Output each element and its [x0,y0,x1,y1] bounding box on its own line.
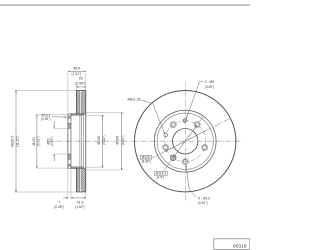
dimension D282.5 [14,89,76,91]
main centerline (horizontal axis) [47,140,241,142]
svg-text:Ø150: Ø150 [32,137,36,145]
svg-text:Ø164: Ø164 [116,136,120,144]
thread hole M8 at 162deg [164,133,168,137]
svg-text:(0.65"): (0.65") [41,117,50,121]
svg-text:(0.28"): (0.28") [54,205,64,209]
bolt hole 54deg [194,122,200,128]
svg-text:Ø145: Ø145 [97,136,101,144]
vertical centerline [184,82,186,201]
boxed label D114.3 [154,171,167,179]
svg-text:(2.82"): (2.82") [50,137,54,146]
label 2-D9 with leader [186,80,214,118]
dimension D150 [37,113,68,115]
friction ring hatch right plate bottom [82,168,86,192]
sheet top border line [0,4,250,6]
hat wall bottom inner edge [71,166,84,168]
dimension D164 [86,112,125,114]
outer diameter circle [135,91,236,192]
svg-text:(6.45"): (6.45") [121,136,125,145]
hat wall hatch bottom [71,167,84,169]
diagonal dimension line D114.3 [163,117,203,172]
friction ring hatch left plate top [76,91,80,115]
dimension D71 bore [54,127,68,129]
label 5-D13 with leader [186,165,210,205]
left plate outer face bottom [75,168,77,192]
hat wall bottom edge [68,167,86,169]
screw hole D9 top [183,119,187,123]
bolt hole 270deg [182,159,188,165]
left plate outer face top [75,90,77,114]
svg-text:2 - Ø9: 2 - Ø9 [205,80,215,84]
bolt circle [165,121,206,162]
svg-text:(1.91"): (1.91") [72,72,82,76]
centre bore edges [68,127,71,129]
centre bore [173,129,198,154]
dimension 25 [75,84,77,90]
diagonal dimension line D126 [151,119,230,159]
svg-text:(11.12"): (11.12") [15,136,19,147]
svg-text:(4.5"): (4.5") [157,176,165,180]
vent slot left edge [79,92,81,190]
thread hole M8 at 234deg (hatched) [170,155,176,161]
flange inner face [70,114,72,168]
flange mounting face [67,114,69,168]
flange hatch bottom [68,154,71,159]
hat wall top edge [68,113,86,115]
svg-text:25: 25 [79,76,83,80]
boxed label D126 [140,155,151,163]
hub outer ring [154,110,216,172]
svg-text:M8x1.25: M8x1.25 [127,97,140,101]
flange hatch top [68,115,71,118]
hat wall top inner edge [71,114,84,116]
bolt hole 342deg [202,144,208,150]
hub inner ring [157,113,213,169]
svg-text:48.5: 48.5 [73,67,80,71]
inner silhouette line right [83,114,85,168]
bolt hole 126deg [170,122,176,128]
svg-text:5 - Ø13: 5 - Ø13 [198,196,209,200]
svg-text:(0.35"): (0.35") [205,85,214,89]
disc outer edge bottom [76,191,85,193]
disc outer edge top [76,90,85,92]
svg-text:(1.62"): (1.62") [75,205,85,209]
title block [214,239,250,250]
vent slot right edge [81,92,83,190]
svg-text:(0.98"): (0.98") [75,81,85,85]
friction ring hatch left plate bottom [76,168,80,192]
svg-text:(5.92"): (5.92") [37,137,41,146]
right face of disc [85,90,87,192]
hat wall hatch top [71,113,84,115]
bolt hole 198deg [163,144,169,150]
svg-text:(0.51"): (0.51") [198,201,207,205]
bolt hole edges in flange [68,117,71,119]
svg-text:(4.96"): (4.96") [142,160,151,164]
dimension 48.5 [67,73,69,114]
dimension 7 and 41.5 bottom [67,168,69,199]
svg-text:Ø282.5: Ø282.5 [10,136,14,147]
dimension D145 [86,114,104,116]
friction ring hatch right plate top [82,91,86,115]
label M8x1.25 with leader [127,97,164,133]
svg-text:(5.62"): (5.62") [102,136,106,145]
svg-text:80318: 80318 [233,244,247,250]
